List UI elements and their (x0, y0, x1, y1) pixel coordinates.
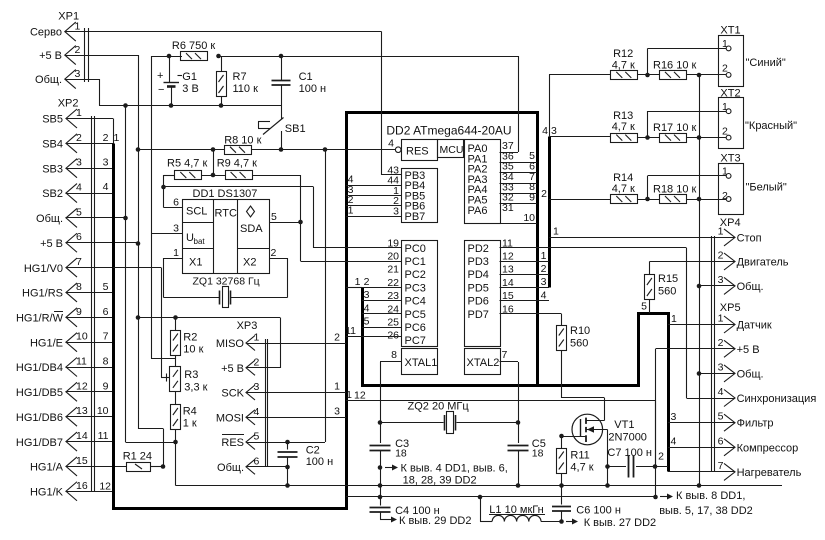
svg-text:R4: R4 (183, 406, 197, 418)
svg-text:5: 5 (254, 431, 260, 443)
wire R2R3 branch left (151, 234, 176, 359)
svg-text:4,7 к: 4,7 к (570, 462, 593, 474)
svg-text:6: 6 (173, 197, 179, 209)
wire PC5 (362, 302, 401, 314)
wire PC3 (362, 276, 401, 288)
svg-text:12: 12 (76, 380, 88, 392)
svg-text:MOSI: MOSI (216, 412, 244, 424)
junction G1- (169, 103, 174, 108)
svg-text:4: 4 (76, 182, 82, 194)
svg-text:R10: R10 (570, 325, 590, 337)
svg-text:Общ.: Общ. (737, 281, 764, 293)
svg-text:1: 1 (75, 21, 81, 33)
wire RES riser to XP3 (325, 150, 327, 443)
svg-text:выв. 5, 17, 38 DD2: выв. 5, 17, 38 DD2 (659, 505, 753, 517)
wire R17-XT2 (686, 137, 726, 139)
resistor R6 (172, 40, 216, 61)
svg-text:13: 13 (76, 405, 88, 417)
connector XP3 label (237, 320, 258, 332)
resistor R8 (224, 135, 261, 155)
svg-text:2: 2 (75, 44, 81, 56)
junction R7 bottom (219, 103, 224, 108)
junction C2 Obsh (285, 465, 290, 470)
capacitor C2 (278, 442, 334, 486)
wire number 1 (SB5) (114, 132, 120, 144)
labels PB3-PB7 (405, 170, 426, 223)
wire R5 left down to SCL (164, 175, 183, 208)
wire PC7 (345, 325, 401, 337)
wire PB4 (346, 174, 401, 186)
connector XP2 pin 14 (HG1/DB7) (16, 430, 88, 451)
cable marks XP1 (85, 28, 89, 82)
svg-text:560: 560 (658, 286, 676, 298)
svg-text:12: 12 (99, 481, 111, 493)
wire XT1 pin1 riser (648, 49, 727, 76)
svg-text:560: 560 (570, 338, 588, 350)
wire Servo to PB3 (66, 32, 402, 176)
wire XP5 Filtr (668, 411, 735, 423)
svg-text:PC4: PC4 (405, 296, 426, 308)
connector XP2 pin 8 (HG1/RS) (22, 281, 82, 302)
wire drain route (562, 398, 605, 421)
wire number 2 (C7) (658, 451, 664, 463)
svg-text:1: 1 (541, 250, 547, 262)
svg-text:3: 3 (393, 206, 399, 218)
svg-text:ZQ2 20 МГц: ZQ2 20 МГц (408, 401, 470, 413)
wire number 2 (SB4) (103, 132, 109, 144)
svg-text:R3: R3 (184, 369, 198, 381)
svg-text:5: 5 (364, 316, 370, 328)
connector XP2 pin 9 (HG1/R/W) (16, 306, 82, 327)
svg-text:5: 5 (271, 211, 277, 223)
svg-text:1: 1 (254, 332, 260, 344)
label Белый (746, 182, 787, 194)
svg-text:Общ.: Общ. (737, 368, 764, 380)
wire number 3 (MOSI) (334, 405, 340, 417)
connector XP2 pin 3 (SB3) (42, 157, 82, 178)
svg-text:2: 2 (541, 263, 547, 275)
resistor R10 (557, 314, 591, 398)
svg-text:4: 4 (103, 181, 109, 193)
junction G1+ (167, 54, 172, 59)
svg-text:R7: R7 (233, 71, 247, 83)
wire XP3 SCK (247, 392, 346, 394)
svg-text:1: 1 (722, 166, 728, 178)
svg-text:R8 10 к: R8 10 к (224, 135, 261, 147)
labels PC0-PC7 (405, 243, 426, 347)
svg-text:HG1/K: HG1/K (30, 486, 64, 498)
junction XP2 +5V (136, 241, 141, 246)
resistor R9 (217, 158, 257, 180)
connector XP3 pin 3 (SCK) (221, 381, 259, 400)
junction ZQ2 right (516, 420, 521, 425)
RES inversion circle (395, 147, 401, 153)
wire number 7 (pin 10) (103, 331, 109, 343)
svg-text:8: 8 (391, 349, 397, 361)
wire bus2 riser to R12 (549, 75, 611, 137)
connector XP3 pin 6 (Общ.) (217, 455, 259, 474)
cable marks XP4/XP5 (712, 236, 715, 472)
labels PA0-PA6 (468, 143, 488, 217)
wire XT gnd bus (699, 75, 701, 486)
junction XP2 Общ. (123, 216, 128, 221)
wire XP3 MISO (247, 343, 346, 345)
svg-text:4: 4 (718, 386, 724, 398)
connector XP2 pin 1 (SB5) (42, 107, 82, 128)
svg-text:11: 11 (76, 356, 87, 368)
svg-text:3: 3 (671, 411, 677, 423)
svg-text:С6 100 н: С6 100 н (576, 505, 621, 517)
connector XP5 pin 4 (Синхронизация) (718, 386, 817, 407)
wire PA3 (500, 171, 538, 184)
annotation C6 (566, 517, 656, 529)
wire number 6 (pin 9) (103, 306, 109, 318)
wire number 1 (below MCU) (346, 389, 352, 401)
svg-text:R16 10 к: R16 10 к (653, 60, 697, 72)
resistor R1 (123, 451, 152, 472)
svg-text:"Красный": "Красный" (745, 120, 797, 132)
pin 6 label DD1 SCL (173, 197, 179, 209)
svg-text:3: 3 (75, 68, 81, 80)
pin numbers PB3-PB7 (387, 164, 399, 217)
connector XP4 pin 1 (Стоп) (718, 225, 762, 246)
svg-text:3: 3 (541, 276, 547, 288)
svg-text:11: 11 (345, 325, 356, 337)
pin 3 label DD1 Ubat (173, 223, 179, 235)
wire RES net row (138, 149, 397, 151)
pin numbers PA0-PA6 (502, 140, 514, 214)
svg-text:1: 1 (722, 101, 728, 113)
wire number 4 (bus2 top) (542, 125, 548, 137)
wire XP3 RES (247, 442, 325, 444)
svg-text:20: 20 (387, 251, 399, 263)
junction SB1 bottom (279, 147, 284, 152)
svg-text:4,7 к: 4,7 к (612, 121, 635, 133)
svg-text:HG1/A: HG1/A (30, 462, 64, 474)
wire PB7 (346, 205, 401, 217)
wire number 9 (pin 12) (103, 380, 109, 392)
wire XP2 pin 14 (66, 441, 114, 443)
svg-text:C2: C2 (306, 445, 320, 457)
cable marks XP2 (92, 116, 95, 491)
svg-text:HG1/RS: HG1/RS (22, 288, 63, 300)
svg-text:12: 12 (502, 251, 514, 263)
svg-text:3: 3 (551, 125, 557, 137)
wire PD7 (500, 313, 562, 315)
label RES (406, 146, 429, 158)
svg-text:Нагреватель: Нагреватель (737, 467, 802, 479)
wire +5V trunk vertical (138, 55, 164, 429)
junction gnd rail (697, 483, 702, 488)
svg-text:+: + (157, 70, 163, 82)
connector XP2 pin 2 (SB4) (42, 132, 82, 153)
wire RES row to C2 (288, 442, 326, 444)
svg-text:SB5: SB5 (42, 114, 63, 126)
svg-text:R17 10 к: R17 10 к (653, 122, 697, 134)
annotation gnd pins (385, 463, 508, 487)
svg-text:3: 3 (173, 223, 179, 235)
wire PD2 to Sync corner (500, 248, 735, 399)
wire XT3 pin1 riser (648, 176, 727, 200)
resistor R16 (653, 60, 697, 80)
svg-text:10 к: 10 к (183, 344, 203, 356)
svg-text:18, 28, 39 DD2: 18, 28, 39 DD2 (403, 475, 477, 487)
wire XP2 pin 3 (66, 168, 114, 170)
wire R1 riser (163, 429, 165, 467)
svg-text:HG1/E: HG1/E (30, 337, 63, 349)
svg-text:1: 1 (671, 313, 677, 325)
svg-text:7: 7 (718, 460, 724, 472)
svg-text:4: 4 (364, 302, 370, 314)
svg-text:XT3: XT3 (720, 153, 740, 165)
wire battery ground rail (99, 105, 281, 107)
svg-text:1: 1 (114, 132, 120, 144)
svg-text:XT1: XT1 (720, 25, 740, 37)
wire XP2 pin 2 (66, 143, 114, 145)
wire R16-XT1 (686, 74, 726, 76)
wire R4 bottom (175, 430, 177, 486)
svg-text:2: 2 (76, 132, 82, 144)
wire XT2 pin1 riser (648, 111, 727, 138)
svg-text:2: 2 (271, 247, 277, 259)
junction R13-R17 (645, 135, 650, 140)
wire XP2 pin 7 (66, 267, 114, 269)
wire R9 right to SDA (252, 175, 301, 222)
svg-text:100 н: 100 н (306, 456, 333, 468)
svg-text:PD2: PD2 (468, 243, 489, 255)
svg-text:XTAL1: XTAL1 (405, 357, 438, 369)
svg-text:3: 3 (76, 157, 82, 169)
wire number 8 (pin 11) (103, 356, 109, 368)
svg-text:Серво: Серво (30, 27, 62, 39)
wire number 5 (R15) (641, 301, 647, 313)
svg-text:ZQ1 32768 Гц: ZQ1 32768 Гц (193, 276, 260, 288)
wire XP4 Dvigatel (650, 262, 735, 273)
junction rail2 end (653, 495, 658, 500)
wire R13 feed (549, 136, 611, 138)
svg-text:2: 2 (364, 276, 370, 288)
wire number 10 (pin 13) (97, 405, 109, 417)
connector XP4 pin 3 (Общ.) (718, 274, 764, 295)
wire XP2 pin 9 (66, 317, 114, 319)
wire 12 from module (346, 401, 656, 467)
svg-text:5: 5 (718, 411, 724, 423)
wire PA2 (500, 160, 538, 172)
svg-text:Синхронизация: Синхронизация (737, 393, 817, 405)
svg-text:1: 1 (722, 38, 728, 50)
pin 1 label DD1 X1 (173, 247, 179, 259)
junction C3 annotation (378, 465, 383, 470)
connector XP3 pin 1 (MISO) (216, 332, 260, 351)
wire Ubat rail (151, 56, 518, 58)
svg-text:HG1/V0: HG1/V0 (24, 263, 63, 275)
wire PA6 (500, 212, 538, 224)
resistor R14 (611, 172, 638, 204)
capacitor C5 (508, 423, 546, 486)
junction R5R9 riser top (211, 147, 216, 152)
svg-text:110 к: 110 к (233, 83, 259, 95)
junction C6 bottom (559, 519, 564, 524)
svg-text:К выв. 4 DD1, выв. 6,: К выв. 4 DD1, выв. 6, (401, 463, 508, 475)
svg-text:SCK: SCK (221, 388, 244, 400)
svg-text:RTC: RTC (215, 208, 237, 220)
left module + MCU boundary cable (thick) (114, 113, 538, 509)
wire number 3 (SB3) (103, 157, 109, 169)
svg-text:2: 2 (334, 332, 340, 344)
svg-text:2: 2 (541, 188, 547, 200)
IC DD1 DS1307 (182, 188, 270, 274)
junction SDA (298, 220, 303, 225)
connector XP1 pin 2 (+5 В) (39, 44, 80, 65)
svg-text:3,3 к: 3,3 к (184, 382, 207, 394)
svg-text:1 к: 1 к (183, 418, 197, 430)
wire Stop from bus2 (549, 226, 735, 238)
svg-text:Стоп: Стоп (737, 232, 762, 244)
wire R18-XT3 (686, 199, 726, 201)
junction ZQ2 left (378, 420, 383, 425)
wire GND trunk (126, 106, 176, 443)
wire PC6 (362, 316, 401, 328)
svg-text:К выв. 8 DD1,: К выв. 8 DD1, (676, 490, 745, 502)
svg-text:PC1: PC1 (405, 256, 426, 268)
svg-text:PC2: PC2 (405, 269, 426, 281)
connector XP2 pin 5 (Общ.) (36, 206, 82, 227)
svg-text:R12: R12 (613, 48, 633, 60)
junction C2 gnd (285, 483, 290, 488)
svg-text:4: 4 (542, 125, 548, 137)
svg-text:PC0: PC0 (405, 243, 426, 255)
svg-text:SDA: SDA (240, 223, 263, 235)
wire XP3 +5V (247, 367, 280, 369)
svg-text:4: 4 (541, 290, 547, 302)
labels PD2-PD7 (468, 243, 489, 321)
junction C7 bus12 (653, 464, 658, 469)
junction gnd XP4 (697, 284, 702, 289)
wire R3 tap (161, 374, 170, 382)
wire XP2 pin 4 (66, 193, 114, 195)
wire XP4 Obsh (699, 285, 735, 287)
svg-text:G1: G1 (182, 71, 197, 83)
wire SCL to MCU PC0 (164, 187, 402, 249)
capacitor C1 (272, 56, 327, 106)
svg-text:1: 1 (348, 205, 354, 217)
svg-text:DD1 DS1307: DD1 DS1307 (193, 188, 258, 200)
button SB1 (258, 106, 306, 150)
wire XP3 Общ. (247, 466, 288, 468)
wire GND rail right part (346, 485, 782, 487)
svg-text:9: 9 (529, 192, 535, 204)
svg-text:14: 14 (76, 430, 88, 442)
svg-text:+5 В: +5 В (737, 344, 760, 356)
pin 8 label XTAL1 (391, 349, 397, 361)
svg-text:10: 10 (97, 405, 109, 417)
capacitor C6 (552, 486, 621, 522)
wire XP2 pin 5 (66, 217, 126, 219)
wire XP5 +5V (656, 349, 735, 498)
IC DD2 cells (386, 124, 511, 375)
svg-text:2: 2 (658, 451, 664, 463)
wire R3-R4 (175, 392, 177, 405)
junction C4 rail2 (378, 495, 383, 500)
svg-text:−: − (158, 84, 164, 96)
wire XP1 Общ. drop (66, 79, 100, 106)
label XTAL1 (405, 357, 438, 369)
svg-text:C7 100 н: C7 100 н (607, 447, 652, 459)
svg-text:5: 5 (641, 301, 647, 313)
wire Ubat trunk down to DD1 pin 3 (151, 56, 182, 234)
junction source C7 (605, 464, 610, 469)
svg-text:2: 2 (718, 337, 724, 349)
svg-text:7: 7 (103, 331, 109, 343)
svg-text:6: 6 (103, 306, 109, 318)
connector XP4 pin 2 (Двигатель) (718, 250, 789, 271)
svg-text:4: 4 (671, 436, 677, 448)
svg-text:1: 1 (76, 107, 82, 119)
svg-text:4: 4 (254, 406, 260, 418)
connector XP2 pin 15 (HG1/A) (30, 455, 88, 476)
resistor R2 (171, 318, 204, 356)
connector XP3 pin 2 (+5 В) (221, 356, 259, 375)
junction RES riser (323, 147, 328, 152)
connector XP2 pin 16 (HG1/K) (30, 480, 88, 501)
connector XP5 pin 5 (Фильтр) (718, 411, 774, 432)
junction R14-R18 (645, 197, 650, 202)
connector XP2 label (58, 98, 79, 110)
svg-text:R6 750 к: R6 750 к (172, 40, 216, 52)
wire XP5 Nagrevatel (668, 471, 735, 473)
wire R14 feed (541, 188, 611, 200)
wire XP5 Obsh (699, 373, 735, 375)
connector XP2 pin 4 (SB2) (42, 182, 82, 203)
wire XP2 pin 13 (66, 416, 114, 418)
connector XP3 pin 4 (MOSI) (216, 406, 260, 425)
wire R1 right (151, 466, 164, 468)
resistor R18 (653, 184, 697, 204)
junction R18 gnd (697, 197, 702, 202)
junction R11 top (559, 434, 564, 439)
wire PA4 (500, 181, 538, 193)
connector XP5 pin 6 (Компрессор) (718, 435, 799, 456)
svg-text:7: 7 (76, 256, 82, 268)
wire X1 to ZQ1 (164, 258, 220, 298)
svg-text:100 н: 100 н (299, 83, 326, 95)
pin 2 label DD1 X2 (271, 247, 277, 259)
wire R5-R9 junction riser (213, 150, 215, 176)
svg-text:PC3: PC3 (405, 282, 426, 294)
svg-text:25: 25 (387, 317, 399, 329)
wire GND rail left part (176, 485, 347, 487)
wire XP5 Kompressor (668, 436, 735, 448)
resistor R11 (557, 436, 594, 486)
svg-text:11: 11 (98, 430, 109, 442)
svg-text:Фильтр: Фильтр (737, 418, 774, 430)
svg-text:bat: bat (194, 237, 206, 246)
svg-text:5: 5 (103, 281, 109, 293)
svg-text:3: 3 (254, 381, 260, 393)
connector XP1 label (58, 11, 79, 23)
resistor R17 (653, 122, 697, 143)
svg-text:C1: C1 (299, 71, 313, 83)
svg-text:Компрессор: Компрессор (737, 442, 799, 454)
connector XT1 (719, 25, 744, 87)
svg-text:9: 9 (76, 306, 82, 318)
svg-text:+5 В: +5 В (40, 238, 63, 250)
svg-text:+5 В: +5 В (221, 363, 244, 375)
junction R2 top (173, 315, 178, 320)
wire number 3 (bus2 top) (551, 125, 557, 137)
svg-text:R18 10 к: R18 10 к (653, 184, 697, 196)
wire XP2 pin 11 (66, 367, 114, 369)
